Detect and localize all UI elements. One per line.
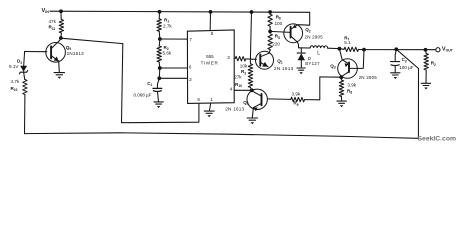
svg-text:2.7k: 2.7k (163, 24, 172, 29)
wire R10 to bottom rail (24, 95, 26, 134)
label C1 (147, 81, 152, 87)
wire Q9 node to pin5 riser (61, 38, 123, 43)
label 9.1V (9, 64, 19, 69)
ground R2 output (421, 83, 430, 89)
label L (317, 51, 320, 57)
capacitor C1 0.068uF (153, 78, 162, 101)
svg-text:2N1613: 2N1613 (67, 51, 85, 56)
ground Q9 emitter (54, 73, 64, 79)
wire feedback diagonal (396, 49, 418, 138)
svg-text:4: 4 (230, 86, 233, 91)
junction Q2 base node (268, 30, 272, 34)
svg-text:220: 220 (272, 41, 280, 46)
pin 3 label (227, 55, 230, 60)
wire pin 5 loop (122, 44, 199, 123)
svg-text:TIMER: TIMER (201, 61, 219, 66)
wire link to pin2 node (158, 68, 161, 78)
svg-text:8: 8 (211, 31, 214, 36)
svg-text:SeekIC.com: SeekIC.com (418, 136, 457, 143)
capacitor C3 100uF (391, 49, 400, 72)
junction R6 top (268, 10, 272, 14)
terminal label V_IN (42, 8, 50, 14)
resistor R1 2.7k (157, 12, 161, 39)
junction R1-R2 pin7 node (158, 37, 162, 41)
op-amp U1 555 timer box (187, 30, 234, 104)
label D BY127 (305, 56, 320, 66)
resistor R6 100 (268, 12, 272, 31)
junction Q9 collector node (59, 36, 63, 40)
svg-text:2: 2 (189, 77, 192, 82)
resistor R2 output (424, 50, 428, 83)
svg-text:3.9k: 3.9k (292, 92, 301, 97)
svg-text:6: 6 (189, 64, 192, 69)
resistor R10 4.7k (23, 80, 27, 95)
wire V_IN supply rail (50, 11, 310, 12)
wire pin 8 to rail (209, 12, 211, 30)
wire R9 to Q4 base (268, 98, 291, 101)
label R2 output (431, 61, 436, 67)
wire Q9 base (25, 51, 47, 53)
svg-text:100 µF: 100 µF (399, 65, 413, 70)
pin 4 label (230, 86, 233, 91)
svg-text:L: L (317, 51, 320, 57)
resistor R11 47k (59, 11, 63, 38)
wire Q4 emitter to ground (252, 108, 253, 118)
svg-text:100: 100 (275, 21, 283, 26)
junction pin6 node (158, 66, 162, 70)
svg-text:2N 1613: 2N 1613 (274, 66, 294, 71)
svg-text:5: 5 (197, 97, 200, 102)
svg-text:7: 7 (189, 37, 192, 42)
resistor R7 5.1 (339, 47, 358, 51)
svg-text:5.6k: 5.6k (163, 51, 172, 56)
junction rail drop to R3 (250, 10, 254, 14)
svg-text:2N 2905: 2N 2905 (359, 75, 378, 80)
svg-text:3.9k: 3.9k (347, 83, 356, 88)
pin 1 label (210, 97, 213, 102)
resistor R2 5.6k (157, 39, 161, 68)
resistor R10 27k (248, 59, 252, 90)
transistor Q4 2N1613 (mirrored) (247, 89, 267, 111)
ground R8 (337, 101, 346, 107)
wire Q9 emitter to ground (58, 61, 61, 72)
label 4.7k R10 (11, 79, 20, 92)
ground C3 (391, 73, 400, 79)
label Q9 2N1613 (66, 45, 84, 56)
pin 5 label (197, 97, 200, 102)
label Q2 2N2905 (305, 27, 324, 39)
label Q1 2N1613 (274, 58, 294, 71)
svg-text:3: 3 (227, 55, 230, 60)
transistor Q2 2N2905 (284, 24, 303, 43)
wire R3 to Q1 base (246, 58, 257, 61)
junction C3 top (394, 47, 398, 51)
svg-text:9.1V: 9.1V (9, 64, 19, 69)
pin 7 label (189, 37, 192, 42)
label R5 220 (272, 34, 280, 47)
wire pin 3 (234, 58, 235, 60)
diode D BY127 (297, 48, 305, 68)
junction R11 top (59, 9, 63, 13)
label R2 5.6k (163, 45, 172, 56)
label C3 (402, 57, 407, 63)
resistor R3 10k (235, 56, 246, 61)
junction R1 top (158, 10, 162, 14)
svg-text:0.068 µF: 0.068 µF (134, 92, 152, 97)
terminal V_OUT (436, 48, 440, 52)
wire rail drop (250, 12, 251, 59)
wire Q3 collector to R9 branch (305, 77, 342, 100)
label R7 5.1 (344, 35, 351, 45)
svg-text:BY127: BY127 (305, 61, 320, 66)
pin 6 label (189, 64, 192, 69)
svg-text:4.7k: 4.7k (11, 79, 20, 84)
svg-text:5.1: 5.1 (344, 40, 351, 45)
resistor R9 3.9k (291, 97, 305, 102)
junction L end Q3 emitter (338, 47, 342, 51)
label R1 2.7k (163, 17, 172, 28)
label Q3 (330, 63, 336, 69)
svg-text:1: 1 (210, 97, 213, 102)
ground Q4 (247, 118, 257, 124)
wire Q2 collector down (297, 42, 298, 48)
label 555 TIMER (201, 54, 219, 66)
label 2N2905 Q3 (359, 75, 378, 80)
label 3.9k R8 (347, 83, 357, 95)
wire bottom feedback rail (25, 133, 418, 139)
wire pin 2 (159, 77, 187, 79)
wire output rail (364, 49, 436, 51)
wire R7 to node (359, 49, 365, 51)
junction R7 right Q3 base (362, 48, 366, 52)
svg-text:555: 555 (206, 54, 214, 59)
transistor Q1 2N1613 (256, 50, 274, 69)
junction 555 pin8 drop (209, 10, 213, 14)
wire pin 7 (160, 38, 188, 40)
junction pin4 Q4 collector (250, 88, 254, 92)
ground pin 1 (204, 111, 214, 117)
svg-text:27k: 27k (234, 74, 242, 79)
label 10k R3 (240, 64, 248, 76)
ground C1 (154, 102, 163, 108)
wire switch node (299, 47, 311, 49)
wire pin 6 (160, 67, 188, 69)
svg-text:2N 1613: 2N 1613 (225, 107, 244, 112)
svg-text:47k: 47k (49, 19, 57, 24)
wire pin 1 stem (209, 104, 210, 111)
label 100uF (399, 65, 413, 70)
transistor Q9 2N1613 (46, 40, 66, 63)
label 0.068uF (134, 92, 152, 97)
wire pin 4 (234, 89, 252, 91)
resistor R8 3.9k (339, 77, 343, 101)
pin 8 label (211, 31, 214, 36)
wire zener column top (23, 52, 26, 66)
resistor R5 220 (268, 34, 272, 50)
label 27k R10 (234, 74, 242, 88)
junction pin2 node (157, 76, 161, 80)
label D2 (17, 59, 22, 65)
transistor Q3 2N2905 (338, 49, 364, 79)
junction Q3 collector (339, 75, 343, 79)
label 3.9k R9 (292, 92, 301, 107)
label 47k R11 (49, 19, 57, 31)
svg-text:10k: 10k (240, 64, 248, 69)
wire Q2 emitter to rail (298, 12, 310, 25)
svg-text:2N 2905: 2N 2905 (305, 35, 324, 40)
ground D (297, 68, 305, 74)
zener diode D2 9.1V (19, 66, 27, 80)
watermark (418, 136, 457, 143)
label V_OUT (442, 46, 454, 52)
label Q4 2N1613 (225, 100, 249, 112)
inductor L (310, 46, 339, 49)
junction R2 output top (424, 48, 428, 52)
label R6 100 (275, 14, 283, 26)
pin 2 label (189, 77, 192, 82)
wire Q2 base (270, 31, 291, 32)
